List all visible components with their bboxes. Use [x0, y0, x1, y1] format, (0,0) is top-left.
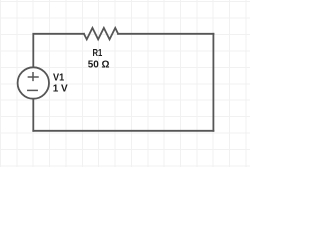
- wire bottom horizontal: [33, 130, 213, 132]
- minus sign of V1: [28, 89, 37, 91]
- svg-text:1 V: 1 V: [53, 83, 68, 94]
- svg-text:R1: R1: [93, 48, 103, 59]
- plus sign of V1: [28, 73, 38, 81]
- wire from bottom-left corner up to V1 negative terminal: [32, 99, 34, 131]
- resistor R1: [84, 28, 118, 40]
- wire right side vertical: [212, 34, 214, 131]
- svg-text:50 Ω: 50 Ω: [88, 60, 110, 71]
- wire from V1 positive terminal up and right to R1 left lead: [33, 34, 84, 68]
- svg-text:V1: V1: [53, 73, 65, 84]
- voltage source V1 circle: [18, 67, 49, 98]
- wire from R1 right lead to top-right corner: [118, 33, 213, 35]
